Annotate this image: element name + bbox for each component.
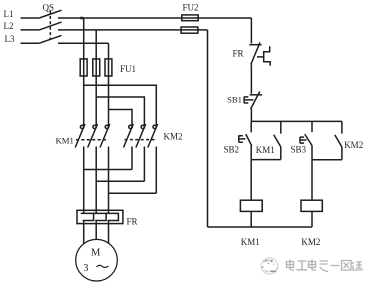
wire SB1 to top bus — [250, 109, 252, 122]
wire phase C from L3 through FU1c to KM1 contact 3 — [108, 43, 110, 125]
svg-text:FU1: FU1 — [120, 64, 136, 74]
junction dot on L1 — [80, 17, 85, 20]
svg-text:FR: FR — [233, 49, 244, 59]
svg-text:SB3: SB3 — [291, 144, 307, 154]
pushbutton SB1 (NC stop) fixed bar — [250, 94, 262, 96]
coil KM1 — [240, 200, 262, 211]
wire FR to motor W — [108, 221, 110, 245]
wire branch phase A to KM2 contact 3 — [84, 85, 157, 125]
wire KM1 contact 2 output down to FR — [95, 147, 97, 214]
thermal relay FR heater element B — [93, 213, 106, 220]
watermark text 电工电气一网通 — [287, 260, 364, 272]
svg-text:KM1: KM1 — [256, 145, 275, 155]
switch QS pole 1 left lead — [21, 17, 40, 19]
wire L2 from QS through FU2 to left control rail — [58, 29, 208, 31]
svg-text:L3: L3 — [5, 34, 15, 44]
contactor KM1 main contact 3 — [100, 124, 110, 148]
svg-text:KM1: KM1 — [241, 237, 260, 247]
pushbutton SB2 blade — [246, 134, 252, 146]
switch QS pole 1 blade — [39, 10, 61, 18]
svg-text:L1: L1 — [4, 9, 14, 19]
contactor KM1 link (dashed) — [76, 139, 109, 141]
contactor KM2 main contact 1 — [124, 124, 134, 148]
switch QS pole 2 left lead — [21, 29, 40, 31]
thermal contact FR blade — [251, 43, 260, 65]
wire L1 from QS through FU2 to control column — [58, 17, 251, 19]
thermal contact FR link — [257, 56, 264, 58]
wire FR to motor V — [95, 221, 97, 240]
wire FR to motor U — [83, 221, 85, 245]
contactor KM2 main contact 2 — [136, 124, 146, 148]
pushbutton SB1 blade — [251, 92, 260, 110]
svg-text:QS: QS — [43, 3, 55, 13]
thermal contact FR (NC) fixed bar — [249, 44, 261, 46]
svg-text:3: 3 — [83, 263, 88, 274]
switch QS mechanical link (dashed) — [49, 11, 51, 40]
contactor KM2 link (dashed) — [125, 139, 157, 141]
switch QS pole 3 left lead — [21, 42, 40, 44]
wire branch1 to coil KM1 — [250, 160, 252, 201]
pushbutton SB2 (NO start) upper lead — [250, 121, 252, 132]
wire join phase V (KM1 out2 to KM2 out2) — [96, 180, 144, 182]
pushbutton SB3 (NO start) upper lead — [311, 121, 313, 132]
wire KM1 aux lower lead — [280, 147, 282, 160]
svg-text:SB1: SB1 — [227, 95, 242, 105]
pushbutton SB3 actuator — [300, 137, 307, 144]
wire KM2 contact 2 output down — [143, 147, 145, 182]
thermal relay FR heater block — [77, 210, 123, 223]
wire phase B from L2 through FU1b to KM1 contact 2 — [95, 30, 97, 125]
switch QS pole 3 blade — [39, 35, 61, 43]
fuse FU1 element B — [93, 59, 100, 76]
wire left control rail — [207, 30, 209, 227]
wire join SB2/KM1 branch — [251, 159, 281, 161]
coil KM2 — [301, 200, 322, 211]
wire control column from L1 down to FR contact — [250, 18, 252, 43]
contactor KM1 aux contact upper lead — [280, 121, 282, 133]
wire branch2 to coil KM2 — [311, 160, 313, 201]
thermal relay FR heater element A — [81, 213, 94, 220]
contactor KM2 aux contact upper lead — [341, 121, 343, 133]
pushbutton SB1 actuator — [244, 97, 253, 104]
wire L3 from QS to drop — [58, 42, 109, 44]
contactor KM2 aux blade — [335, 135, 342, 147]
wire branch phase C to KM2 contact 1 — [109, 110, 133, 126]
fuse FU1 element C — [105, 59, 112, 76]
contactor KM1 aux blade — [274, 135, 281, 147]
fuse FU1 element A — [80, 59, 87, 76]
svg-text:SB2: SB2 — [224, 145, 240, 155]
thermal contact FR element symbol — [264, 46, 271, 65]
watermark logo icon — [261, 258, 278, 274]
svg-text:KM2: KM2 — [164, 132, 183, 142]
wire control top bus — [251, 120, 342, 122]
wire FR contact to SB1 — [250, 65, 252, 94]
contactor KM1 main contact 1 — [75, 124, 85, 148]
fuse FU2 lower (L2) — [181, 27, 198, 33]
pushbutton SB2 actuator — [239, 135, 246, 142]
svg-text:M: M — [91, 248, 101, 259]
wire SB2 lower lead — [250, 146, 252, 160]
wire phase A from L1 through FU1a to KM1 contact 1 — [83, 18, 85, 125]
svg-text:KM2: KM2 — [344, 140, 363, 150]
wire branch phase B to KM2 contact 2 — [96, 97, 144, 125]
wire join phase U (KM1 out1 to KM2 out1) — [84, 169, 132, 171]
wire KM1 contact 1 output down to FR — [83, 147, 85, 214]
svg-text:KM1: KM1 — [56, 136, 74, 146]
svg-text:FR: FR — [127, 217, 138, 227]
motor M 3~ — [76, 239, 118, 281]
switch QS pole 2 blade — [39, 22, 61, 30]
contactor KM1 main contact 2 — [88, 124, 98, 148]
svg-text:L2: L2 — [4, 21, 14, 31]
pushbutton SB3 blade — [305, 134, 312, 145]
wire control bottom bus — [208, 226, 313, 228]
fuse FU2 upper (L1) — [182, 15, 198, 21]
wire coil KM2 to bottom bus — [311, 211, 313, 227]
wire join phase W (KM1 out3 to KM2 out3) — [109, 192, 157, 194]
wire coil KM1 to bottom bus — [250, 211, 252, 227]
svg-text:FU2: FU2 — [183, 3, 199, 13]
contactor KM2 main contact 3 — [148, 124, 158, 148]
wire join SB3/KM2 branch — [312, 159, 342, 161]
wire KM1 contact 3 output down to FR — [108, 147, 110, 214]
wire KM2 contact 3 output down — [155, 147, 157, 194]
wire SB3 lower lead — [311, 146, 313, 160]
thermal relay FR heater element C — [106, 213, 119, 220]
wire KM2 aux lower lead — [341, 147, 343, 160]
wire KM2 contact 1 output down — [131, 147, 133, 170]
svg-text:KM2: KM2 — [301, 237, 320, 247]
